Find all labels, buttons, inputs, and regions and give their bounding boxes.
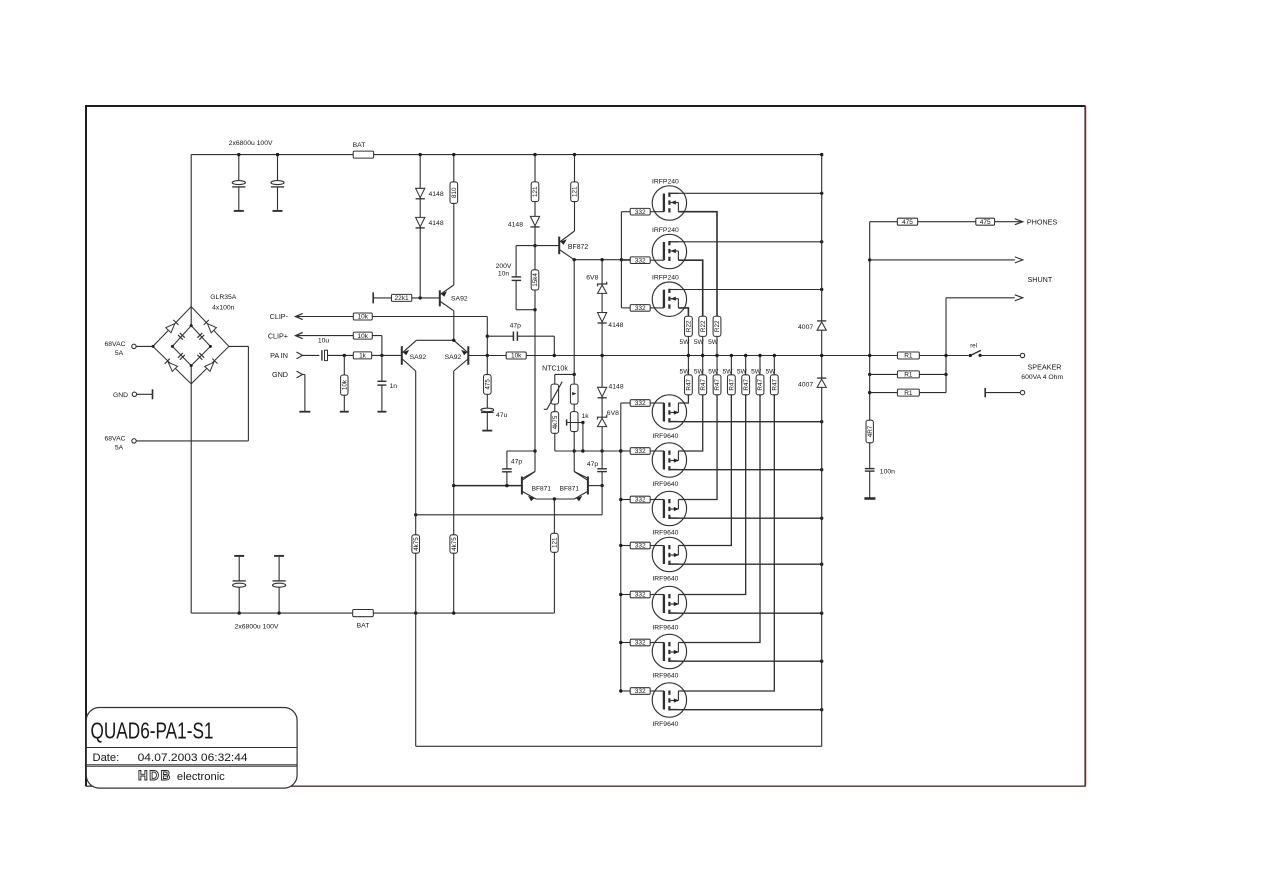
svg-text:22k1: 22k1: [395, 295, 409, 302]
svg-text:IRF9640: IRF9640: [652, 481, 678, 488]
svg-text:BF871: BF871: [532, 485, 552, 492]
ground bar 47u: [482, 430, 492, 432]
svg-text:332: 332: [635, 400, 646, 407]
svg-text:PA IN: PA IN: [270, 351, 288, 360]
svg-text:1k: 1k: [359, 353, 367, 360]
transistor BF871 left (NPN): [521, 477, 523, 495]
svg-text:332: 332: [635, 640, 646, 647]
wire +V rail left corner down to bridge: [190, 155, 192, 326]
transistor SA92 diff right (PNP): [467, 346, 469, 365]
svg-text:68VAC: 68VAC: [104, 341, 125, 348]
resistor R47 #2 5W: [702, 356, 704, 375]
svg-text:100n: 100n: [880, 469, 895, 476]
wire BF871 right base line: [588, 485, 602, 487]
wire cap to 1k: [328, 354, 354, 356]
wire VAS column: [534, 155, 536, 472]
resistor 4k75 left: [412, 535, 420, 553]
svg-text:332: 332: [635, 497, 646, 504]
svg-text:4k75: 4k75: [451, 537, 458, 551]
svg-text:332: 332: [635, 209, 646, 216]
svg-text:BF872: BF872: [568, 244, 588, 251]
wire -V drop to bottom bus: [415, 613, 417, 746]
svg-text:5W: 5W: [708, 339, 719, 346]
resistor R47 #3 5W: [716, 356, 718, 375]
resistor R1 c: [870, 392, 946, 394]
svg-text:IRF9640: IRF9640: [652, 529, 678, 536]
svg-text:GND: GND: [113, 392, 128, 399]
wire drain IRF9640 #6 to -V bus: [669, 660, 821, 662]
svg-text:R22: R22: [714, 320, 721, 332]
wire pot to node line: [573, 432, 575, 472]
wire source IRFP240 #3 to R22: [678, 308, 688, 316]
wire CLIP+ drop to input node: [381, 336, 383, 356]
svg-text:GND: GND: [272, 370, 288, 379]
terminal SPEAKER return: [984, 388, 986, 397]
wire drain IRF9640 #2 to -V bus: [669, 469, 821, 471]
resistor R47 #1 5W: [687, 356, 689, 375]
capacitor 1n input: [381, 355, 383, 381]
resistor 10k CLIP+: [353, 332, 372, 339]
resistor 10k feedback on rail: [506, 352, 526, 359]
diode 4148 a: [416, 188, 425, 197]
wire +V top rail: [191, 154, 822, 156]
svg-text:HDB: HDB: [138, 768, 172, 783]
wire drain IRF9640 #1 to -V bus: [669, 421, 821, 423]
svg-text:electronic: electronic: [177, 771, 225, 783]
svg-text:10k: 10k: [358, 314, 369, 321]
wire clamp chain to feedback corner: [601, 486, 603, 515]
bridge diode D2 upper-right: [207, 324, 216, 333]
diode chain 4148 x2 from +V: [419, 155, 421, 298]
wire source IRFP240 #2 to R22: [678, 260, 702, 316]
wire BF872 emitter to 121: [574, 202, 576, 231]
transistor IRF9640 Q8: [652, 586, 686, 620]
capacitor C2 2x6800u top: [277, 155, 279, 181]
capacitor 47p right: [601, 451, 603, 469]
wire source IRF9640 #4 from R47: [678, 395, 731, 546]
svg-text:IRFP240: IRFP240: [652, 275, 679, 282]
svg-text:332: 332: [635, 592, 646, 599]
svg-text:CLIP+: CLIP+: [268, 331, 288, 340]
svg-text:IRFP240: IRFP240: [652, 227, 679, 234]
svg-text:BAT: BAT: [353, 142, 366, 149]
svg-text:R47: R47: [743, 379, 750, 391]
wire source IRF9640 #1 from R47: [678, 395, 688, 403]
resistor R22 c: [713, 316, 721, 336]
wire drain IRFP240 #1 to +V bus: [669, 192, 821, 194]
ground bar 10k: [340, 411, 349, 413]
bridge diode D4 lower-right: [205, 362, 214, 371]
resistor 810: [453, 155, 455, 285]
bridge cap 100n upper-right inner: [199, 335, 204, 340]
resistor R47 #7 5W: [773, 356, 775, 375]
resistor R47 #4 5W: [730, 356, 732, 375]
wire feedback line: [416, 514, 602, 516]
resistor 15k4: [531, 270, 539, 290]
wire shunt sense line: [870, 259, 1015, 261]
resistor 332 gate P1: [621, 402, 630, 404]
wire PA IN to coupling cap: [303, 354, 320, 356]
svg-text:SPEAKER: SPEAKER: [1028, 362, 1062, 371]
svg-text:GLR35A: GLR35A: [210, 294, 237, 301]
wire drain IRF9640 #7 to -V bus: [669, 709, 821, 711]
transistor BF872 (PNP): [558, 237, 560, 255]
svg-text:5A: 5A: [115, 444, 124, 451]
svg-text:04.07.2003 06:32:44: 04.07.2003 06:32:44: [138, 752, 248, 764]
svg-text:6V8: 6V8: [607, 410, 619, 417]
wire PHONES line: [870, 221, 1023, 223]
svg-text:4R7: 4R7: [867, 425, 874, 437]
wire -V right bus: [821, 387, 823, 746]
wire shunt vertical: [945, 298, 947, 393]
arrow PHONES: [1015, 219, 1023, 225]
transistor IRF9640 Q6: [652, 491, 686, 525]
svg-text:10u: 10u: [318, 338, 330, 345]
svg-text:10n: 10n: [498, 270, 510, 277]
svg-text:rel: rel: [970, 344, 977, 350]
svg-text:475: 475: [484, 379, 491, 390]
svg-text:121: 121: [552, 537, 559, 548]
wire left collector column: [415, 371, 417, 613]
wire bias col to BF871 right collector: [574, 472, 588, 479]
wire drain IRFP240 #2 to +V bus: [669, 241, 821, 243]
transistor IRF9640 Q9: [652, 634, 686, 668]
svg-text:QUAD6-PA1-S1: QUAD6-PA1-S1: [91, 717, 214, 743]
transistor IRF9640 Q4: [652, 395, 686, 429]
svg-text:47p: 47p: [587, 461, 599, 468]
svg-text:Date:: Date:: [93, 752, 120, 764]
svg-text:R47: R47: [771, 379, 778, 391]
wire mid rail main: [468, 355, 968, 357]
wire output to phones corner: [869, 222, 871, 421]
resistor 10k CLIP-: [353, 313, 372, 320]
svg-text:4007: 4007: [798, 324, 813, 331]
svg-text:R47: R47: [729, 379, 736, 391]
svg-text:R22: R22: [686, 320, 693, 332]
capacitor 10u coupling: [321, 350, 323, 360]
wire source IRF9640 #2 from R47: [678, 395, 702, 451]
svg-text:IRF9640: IRF9640: [652, 624, 678, 631]
wire shunt return line: [946, 297, 1015, 299]
wire bias column from BF872 collector: [573, 260, 575, 384]
transistor SA92 diff left (PNP): [401, 346, 403, 365]
capacitor 200V 10n: [516, 245, 535, 247]
ground bar zobel: [864, 497, 875, 500]
wire bridge bottom to -V rail: [190, 366, 192, 613]
bridge rectifier GLR35A outer diamond: [153, 307, 229, 384]
svg-text:4148: 4148: [609, 383, 624, 390]
svg-text:R47: R47: [686, 379, 693, 391]
wire -V bottom rail: [191, 612, 554, 614]
bridge cap 100n lower-left inner: [180, 355, 185, 360]
wire source IRF9640 #7 from R47: [678, 395, 774, 691]
svg-text:4148: 4148: [429, 220, 444, 227]
svg-text:68VAC: 68VAC: [104, 435, 125, 442]
svg-text:SHUNT: SHUNT: [1028, 275, 1053, 284]
svg-text:IRF9640: IRF9640: [652, 433, 678, 440]
wire source IRFP240 #1 to R22: [678, 212, 717, 317]
svg-text:4148: 4148: [508, 222, 523, 229]
svg-text:4007: 4007: [798, 381, 813, 388]
ground bar GND input: [299, 411, 310, 413]
svg-text:332: 332: [635, 448, 646, 455]
capacitor C3 2x6800u bottom: [234, 555, 244, 557]
terminal tick 22k1 left end: [372, 292, 374, 303]
capacitor C1 2x6800u top: [238, 155, 240, 181]
svg-text:SA92: SA92: [445, 354, 462, 361]
potentiometer 1k: [573, 404, 575, 412]
wire source IRF9640 #6 from R47: [678, 395, 760, 643]
resistor 475 to 47u: [486, 356, 488, 375]
resistor 121 a: [531, 182, 539, 202]
resistor 332 gate N1: [621, 211, 630, 213]
wire source IRF9640 #3 from R47: [678, 395, 717, 500]
wire bias node line: [555, 450, 621, 452]
wire drain IRF9640 #5 to -V bus: [669, 612, 821, 614]
svg-text:600VA 4 Ohm: 600VA 4 Ohm: [1021, 374, 1063, 381]
wire output node bus: [821, 330, 823, 378]
trimmer upper box: [570, 384, 578, 404]
svg-text:200V: 200V: [496, 263, 512, 270]
svg-text:5W: 5W: [694, 339, 705, 346]
svg-text:4k75: 4k75: [413, 537, 420, 551]
border frame: [85, 106, 87, 786]
resistor R1 b: [870, 373, 946, 375]
arrow shunt return: [1015, 295, 1023, 301]
svg-text:1n: 1n: [390, 383, 398, 390]
svg-text:IRF9640: IRF9640: [652, 672, 678, 679]
wire 22k1 line: [373, 297, 440, 299]
svg-text:CLIP-: CLIP-: [270, 312, 289, 321]
wire right collector column: [453, 371, 455, 613]
svg-text:R22: R22: [700, 320, 707, 332]
svg-text:4148: 4148: [608, 322, 623, 329]
title block frame: [86, 708, 297, 789]
resistor 332 gate P5: [621, 594, 630, 596]
pot wiper: [566, 419, 568, 425]
resistor 332 gate N3: [621, 307, 630, 309]
svg-text:332: 332: [635, 688, 646, 695]
svg-text:47u: 47u: [496, 412, 508, 419]
wire N gate bus: [620, 212, 622, 308]
capacitor 47p left: [506, 472, 508, 486]
transistor IRFP240 Q2: [652, 234, 686, 268]
svg-text:R1: R1: [904, 353, 913, 360]
svg-text:47p: 47p: [511, 458, 523, 465]
svg-text:47p: 47p: [510, 322, 522, 329]
svg-text:IRF9640: IRF9640: [652, 575, 678, 582]
NTC branch jog: [555, 373, 574, 375]
resistor 332 gate N2: [621, 259, 630, 261]
wire 1k to diff pair base: [372, 354, 402, 356]
svg-text:SA92: SA92: [451, 295, 468, 302]
resistor R47 #6 5W: [759, 356, 761, 375]
svg-text:R1: R1: [904, 390, 913, 397]
wire drain IRF9640 #3 to -V bus: [669, 517, 821, 519]
transistor IRF9640 Q10: [652, 683, 686, 717]
svg-text:121: 121: [572, 186, 579, 197]
title block divider 2: [86, 764, 297, 766]
transistor IRFP240 Q1: [652, 186, 686, 220]
terminal SPEAKER +: [1020, 353, 1024, 357]
resistor 4R7 zobel: [866, 420, 873, 443]
resistor 332 gate P6: [621, 642, 630, 644]
svg-text:R1: R1: [904, 372, 913, 379]
diode 4148 clamp lower: [598, 387, 607, 396]
wire CLIP- line: [296, 316, 488, 318]
resistor R47 #5 5W: [745, 356, 747, 375]
transistor IRF9640 Q7: [652, 537, 686, 571]
wire drain IRF9640 #4 to -V bus: [669, 563, 821, 565]
wire clamp chain: [601, 260, 603, 451]
capacitor 47u: [481, 408, 494, 411]
resistor 22k1: [391, 294, 411, 301]
transistor IRFP240 Q3: [652, 282, 686, 316]
svg-text:15k4: 15k4: [532, 273, 539, 287]
diode 4148 clamp upper: [598, 313, 607, 322]
wire CLIP+ line: [296, 335, 382, 337]
transistor SA92 upper (PNP): [439, 290, 441, 306]
resistor 332 gate P2: [621, 450, 630, 452]
svg-text:332: 332: [635, 305, 646, 312]
svg-text:4148: 4148: [429, 191, 444, 198]
fuse BAT top: [353, 151, 373, 158]
svg-text:6V8: 6V8: [586, 274, 598, 281]
svg-text:475: 475: [980, 219, 991, 226]
svg-text:5A: 5A: [115, 350, 124, 357]
wire diff pair emitter top link: [416, 339, 453, 341]
resistor 332 gate P7: [621, 690, 630, 692]
resistor R1 a: [897, 352, 919, 359]
svg-text:R47: R47: [700, 379, 707, 391]
resistor 332 gate P4: [621, 545, 630, 547]
svg-text:PHONES: PHONES: [1027, 218, 1058, 227]
svg-text:4x100n: 4x100n: [212, 305, 235, 312]
wire relay to speaker terminal: [980, 355, 1020, 357]
svg-text:10k: 10k: [511, 353, 522, 360]
wire VAS to BF871 left collector: [522, 472, 535, 479]
resistor 4k75 right: [450, 535, 458, 553]
svg-text:10k: 10k: [358, 333, 369, 340]
svg-text:2x6800u 100V: 2x6800u 100V: [235, 624, 279, 631]
diode 4148 b: [416, 217, 425, 226]
wire +V right bus: [821, 155, 823, 321]
resistor 475 a: [897, 218, 917, 225]
svg-text:810: 810: [451, 187, 458, 198]
wire drain IRFP240 #3 to +V bus: [669, 289, 821, 291]
svg-text:BF871: BF871: [560, 485, 580, 492]
resistor 10k input to ground: [343, 355, 345, 375]
transistor IRF9640 Q5: [652, 443, 686, 477]
wire GND stub: [303, 374, 305, 376]
svg-text:R47: R47: [714, 379, 721, 391]
svg-text:332: 332: [635, 543, 646, 550]
svg-text:475: 475: [902, 219, 913, 226]
ground bar 1n: [377, 411, 386, 413]
junction dots bridge: [152, 345, 155, 348]
wire drive line to gates: [574, 259, 630, 261]
arrow shunt sense: [1015, 257, 1023, 263]
diode 4148 VAS: [530, 216, 539, 225]
bridge cap 100n lower-right inner: [197, 355, 202, 360]
svg-text:332: 332: [635, 257, 646, 264]
svg-text:R47: R47: [757, 379, 764, 391]
wire BF872 base line: [535, 245, 559, 247]
resistor R22 a: [685, 316, 693, 336]
wire CLIP- drop to rail: [486, 317, 488, 356]
resistor 121 emitter: [553, 499, 555, 533]
bridge diode D1 upper-left: [166, 324, 175, 333]
svg-text:4k75: 4k75: [552, 415, 559, 429]
wire P gate bus: [620, 403, 622, 691]
transistor BF871 right (NPN): [587, 477, 589, 495]
svg-text:1k: 1k: [582, 413, 590, 420]
resistor 1k series input: [353, 352, 371, 359]
svg-text:NTC10k: NTC10k: [542, 366, 568, 373]
fuse BAT bottom: [353, 610, 374, 617]
svg-text:2x6800u 100V: 2x6800u 100V: [229, 140, 273, 147]
title block divider 1: [86, 747, 297, 749]
bridge cap 100n upper-left inner: [178, 335, 183, 340]
wire emitter bus: [536, 498, 574, 500]
bridge rectifier inner diamond 4x100n: [172, 326, 210, 366]
capacitor C4 2x6800u bottom: [274, 555, 284, 557]
svg-text:IRFP240: IRFP240: [652, 178, 679, 185]
svg-text:IRF9640: IRF9640: [652, 721, 678, 728]
resistor 121 b: [574, 155, 576, 182]
resistor R22 b: [699, 316, 707, 336]
capacitor 100n zobel: [869, 443, 871, 469]
bridge diode D3 lower-left: [168, 362, 177, 371]
wire source IRF9640 #5 from R47: [678, 395, 745, 595]
wire 68VAC bottom to bridge right vertex: [136, 440, 248, 442]
resistor 332 gate P3: [621, 499, 630, 501]
resistor 475 b: [976, 218, 995, 225]
svg-text:BAT: BAT: [357, 623, 370, 630]
svg-text:5W: 5W: [680, 339, 691, 346]
capacitor 47p rail corner: [487, 335, 514, 337]
svg-text:10k: 10k: [341, 379, 348, 390]
wire BF871 left base line: [454, 485, 522, 487]
svg-text:121: 121: [532, 186, 539, 197]
resistor 4k75 bias: [554, 404, 556, 412]
svg-text:SA92: SA92: [410, 354, 427, 361]
